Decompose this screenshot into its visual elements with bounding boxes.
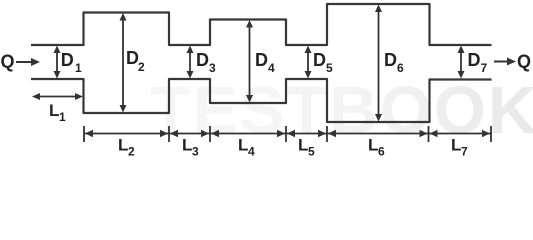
- svg-text:6: 6: [378, 145, 385, 159]
- flow arrow Q inlet: [16, 58, 40, 66]
- tick at x=491 end of L7: [482, 126, 491, 142]
- dimension L1: [32, 93, 83, 100]
- dimension D1: [54, 46, 61, 79]
- dimension D6: [375, 5, 382, 122]
- dimension D7: [458, 46, 465, 79]
- tick at x=210 between L3 and L4: [201, 126, 219, 142]
- svg-text:Q: Q: [1, 52, 15, 72]
- svg-text:4: 4: [268, 61, 275, 75]
- svg-text:D: D: [468, 50, 481, 70]
- flow arrow Q outlet: [494, 58, 516, 66]
- svg-text:D: D: [255, 50, 268, 70]
- svg-text:D: D: [313, 50, 326, 70]
- svg-text:L: L: [49, 101, 59, 120]
- svg-text:1: 1: [75, 61, 82, 75]
- svg-text:2: 2: [128, 145, 135, 159]
- svg-text:L: L: [298, 136, 308, 155]
- pipe top wall profile: [31, 4, 492, 45]
- svg-text:3: 3: [209, 61, 216, 75]
- svg-text:D: D: [196, 50, 209, 70]
- tick at x=169 between L2 and L3: [160, 126, 178, 142]
- dimension D3: [187, 46, 194, 79]
- tick at x=327 between L5 and L6: [318, 126, 336, 142]
- dimension chain line L2-L7: [84, 133, 491, 135]
- svg-text:4: 4: [248, 145, 255, 159]
- dimension D2: [120, 13, 127, 113]
- tick at x=84 start of L2: [84, 126, 93, 142]
- dimension D5: [305, 46, 312, 79]
- svg-text:TESTBOOK: TESTBOOK: [150, 73, 533, 148]
- pipe bottom wall profile: [31, 79, 492, 122]
- svg-text:L: L: [368, 136, 378, 155]
- svg-text:5: 5: [308, 145, 315, 159]
- svg-text:7: 7: [461, 145, 468, 159]
- svg-text:D: D: [384, 50, 397, 70]
- svg-text:L: L: [182, 136, 192, 155]
- tick at x=428.5 between L6 and L7: [420, 126, 438, 142]
- svg-text:3: 3: [192, 145, 199, 159]
- svg-text:Q: Q: [517, 52, 531, 72]
- svg-text:L: L: [451, 136, 461, 155]
- svg-text:1: 1: [59, 110, 66, 124]
- svg-text:D: D: [61, 50, 74, 70]
- svg-text:7: 7: [481, 61, 488, 75]
- svg-text:5: 5: [326, 61, 333, 75]
- svg-text:6: 6: [397, 61, 404, 75]
- svg-text:L: L: [238, 136, 248, 155]
- svg-text:2: 2: [138, 60, 145, 74]
- tick at x=286 between L4 and L5: [277, 126, 295, 142]
- dimension D4: [246, 20, 253, 103]
- svg-text:L: L: [118, 136, 128, 155]
